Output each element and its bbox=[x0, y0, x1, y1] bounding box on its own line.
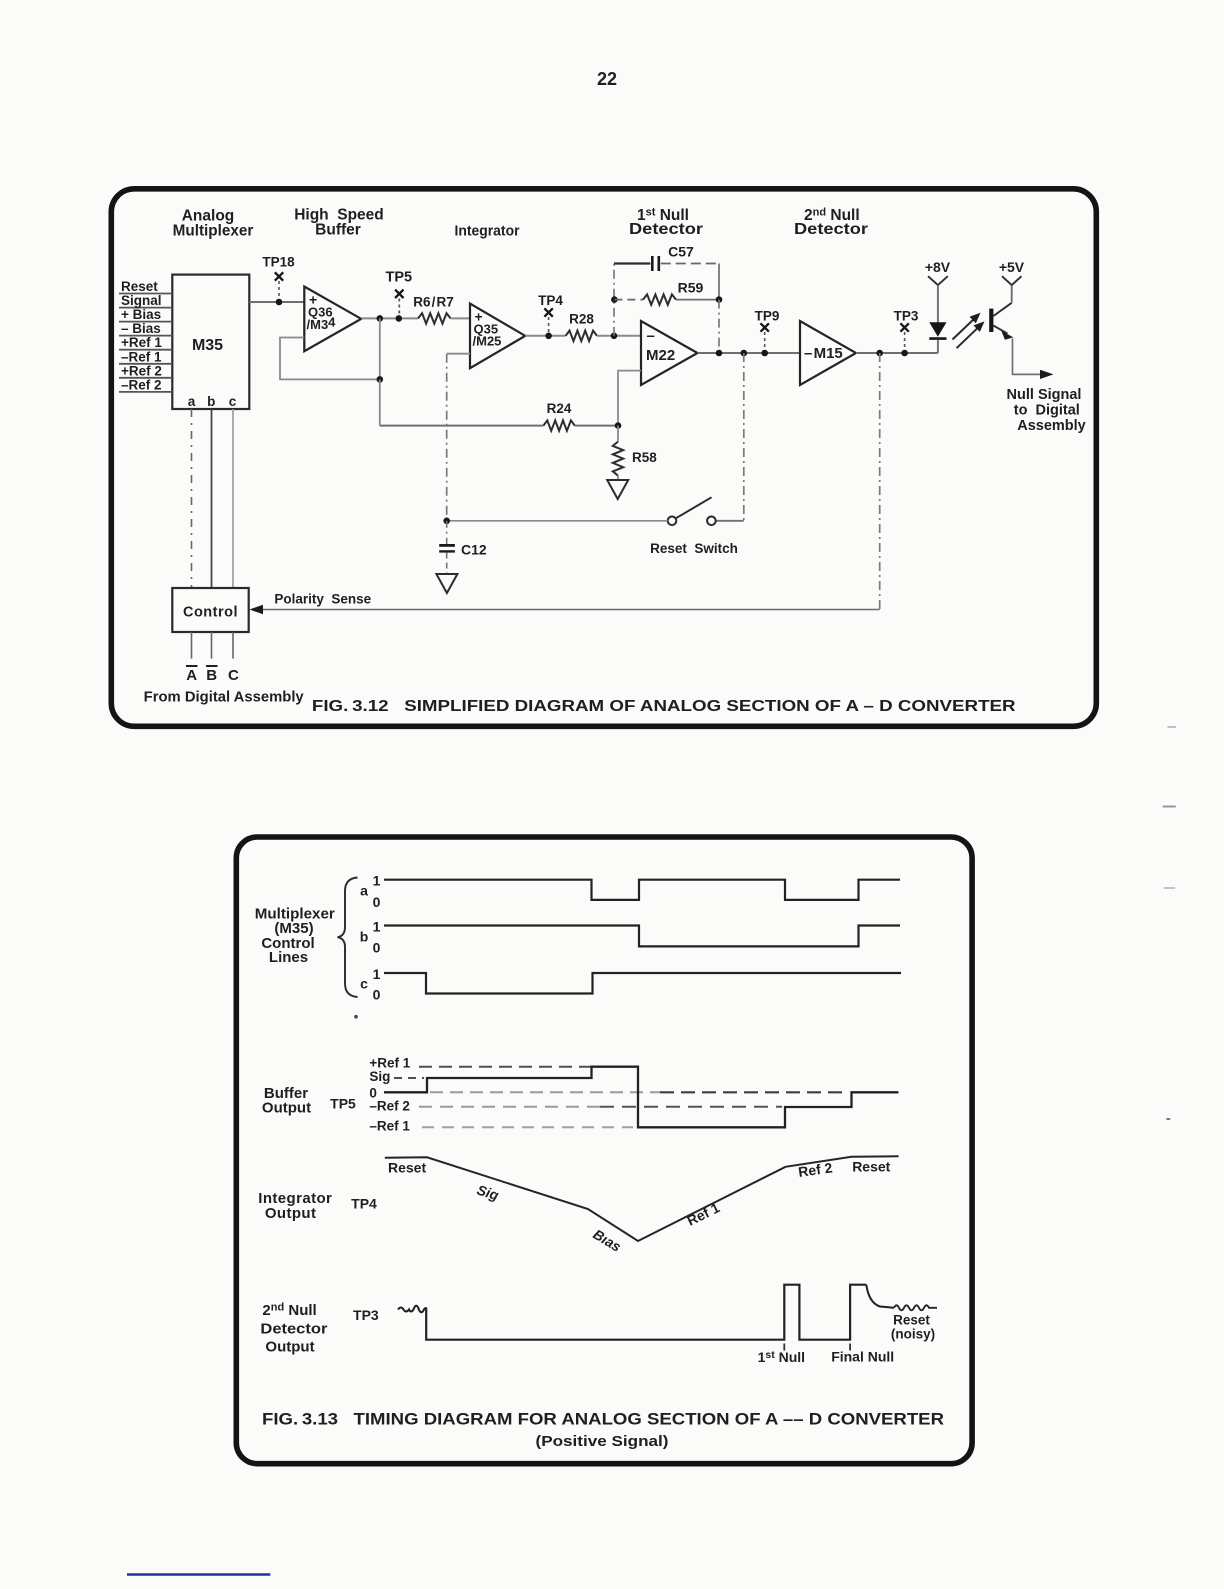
optocoupler transistor bbox=[989, 285, 1013, 340]
svg-text:+ Bias: + Bias bbox=[121, 307, 161, 322]
svg-text:TP5: TP5 bbox=[386, 270, 413, 286]
tick 1st null bbox=[783, 1344, 785, 1351]
level dashes +Ref 1 bbox=[419, 1066, 592, 1068]
svg-text:– M15: – M15 bbox=[804, 345, 843, 362]
capacitor C12 bbox=[439, 521, 487, 574]
power +5V bbox=[999, 259, 1025, 285]
svg-text:From Digital Assembly: From Digital Assembly bbox=[144, 690, 304, 706]
svg-text:FIG. 3.12 SIMPLIFIED DIAGRAM: FIG. 3.12 SIMPLIFIED DIAGRAM OF ANALOG S… bbox=[312, 698, 1016, 715]
svg-text:Ref 1: Ref 1 bbox=[684, 1199, 722, 1228]
resistor R28 bbox=[566, 312, 597, 342]
svg-text:Output: Output bbox=[265, 1339, 314, 1356]
svg-text:Reset: Reset bbox=[852, 1159, 890, 1175]
test point TP5 bbox=[386, 270, 413, 322]
wire control line b bbox=[211, 409, 213, 588]
wire M22 output to M15 bbox=[698, 352, 801, 354]
wire R59 node down to output line bbox=[718, 300, 720, 353]
svg-text:–Ref 2: –Ref 2 bbox=[121, 377, 162, 392]
svg-text:C12: C12 bbox=[461, 542, 487, 558]
svg-text:a: a bbox=[188, 394, 196, 409]
svg-text:Reset: Reset bbox=[893, 1313, 930, 1328]
test point TP3 bbox=[894, 309, 919, 357]
op-amp buffer Q36/M34 bbox=[304, 287, 361, 352]
svg-text:–: – bbox=[647, 328, 655, 345]
level dashes 0 bbox=[430, 1091, 849, 1093]
svg-text:Detector: Detector bbox=[260, 1321, 327, 1338]
svg-text:–Ref 2: –Ref 2 bbox=[369, 1098, 410, 1113]
svg-text:Integrator: Integrator bbox=[455, 223, 520, 240]
svg-text:1: 1 bbox=[373, 966, 381, 982]
scan marks right margin bbox=[1163, 727, 1176, 1119]
svg-text:TP18: TP18 bbox=[262, 255, 295, 270]
svg-text:+5V: +5V bbox=[999, 259, 1025, 275]
wire M35 output to buffer input bbox=[249, 301, 304, 303]
reset switch bbox=[650, 497, 744, 556]
label High Speed Buffer bbox=[294, 206, 384, 238]
svg-text:/M34: /M34 bbox=[307, 315, 337, 333]
test point TP9 bbox=[755, 309, 780, 357]
svg-text:B: B bbox=[206, 667, 217, 684]
svg-text:0: 0 bbox=[373, 940, 381, 956]
svg-text:TP3: TP3 bbox=[353, 1307, 379, 1323]
svg-text:(noisy): (noisy) bbox=[891, 1327, 935, 1342]
node reset switch branch bbox=[741, 350, 748, 357]
M35 input -Bias bbox=[119, 321, 172, 336]
blue rule bottom left bbox=[127, 1573, 270, 1576]
wire buffer output bbox=[361, 317, 418, 319]
label Integrator Output TP4 bbox=[258, 1190, 377, 1222]
svg-text:Reset: Reset bbox=[388, 1160, 426, 1176]
figure 3.12 border frame bbox=[111, 189, 1096, 727]
wire integrator output bbox=[525, 335, 565, 337]
waveform TP4 integrator output curve bbox=[385, 1156, 899, 1241]
svg-text:Control: Control bbox=[183, 605, 238, 621]
test point TP18 bbox=[262, 255, 295, 306]
node buffer output bbox=[377, 315, 384, 322]
svg-text:Detector: Detector bbox=[629, 221, 703, 238]
svg-text:M35: M35 bbox=[192, 337, 223, 354]
svg-text:+8V: +8V bbox=[925, 259, 951, 275]
capacitor C57 bbox=[614, 244, 719, 272]
svg-text:Reset: Reset bbox=[121, 279, 158, 294]
svg-text:R28: R28 bbox=[569, 312, 594, 327]
M35 input -Ref1 bbox=[119, 349, 172, 364]
wire buffer feedback loop bbox=[280, 318, 380, 379]
wire down to R24 row bbox=[379, 379, 381, 425]
svg-text:0: 0 bbox=[373, 987, 381, 1003]
label Multiplexer (M35) Control Lines bbox=[255, 905, 335, 966]
svg-text:(Positive Signal): (Positive Signal) bbox=[536, 1433, 669, 1450]
level dashes -Ref 2 bbox=[419, 1106, 782, 1108]
op-amp 1st null detector M22 bbox=[641, 321, 698, 385]
waveform TP3 trace bbox=[398, 1285, 937, 1340]
wire R6/R7 to integrator bbox=[451, 317, 470, 319]
wire M22 lower input bbox=[618, 371, 641, 426]
svg-text:Lines: Lines bbox=[269, 949, 308, 966]
M35 input +Ref2 bbox=[119, 363, 172, 378]
test point TP4 bbox=[538, 293, 563, 339]
label 2nd Null Detector bbox=[794, 207, 868, 238]
svg-text:b: b bbox=[207, 394, 215, 409]
speck bbox=[354, 1015, 358, 1019]
svg-text:TP3: TP3 bbox=[894, 309, 919, 324]
M35 pins a b c bbox=[188, 394, 237, 409]
waveform b trace bbox=[384, 926, 900, 947]
labels A bar B bar C bbox=[186, 666, 239, 684]
svg-text:R59: R59 bbox=[678, 280, 704, 296]
svg-text:Multiplexer: Multiplexer bbox=[173, 222, 254, 239]
resistor R6/R7 bbox=[413, 295, 454, 324]
label Buffer Output TP5 bbox=[262, 1085, 356, 1117]
light arrows to optocoupler bbox=[953, 313, 985, 349]
waveform a trace bbox=[384, 880, 900, 900]
resistor R58 bbox=[613, 426, 657, 480]
svg-text:TP4: TP4 bbox=[538, 293, 563, 308]
svg-text:a: a bbox=[360, 883, 368, 899]
label 2nd Null Detector Output TP3 bbox=[260, 1302, 379, 1356]
wire control line c bbox=[232, 409, 234, 588]
svg-text:R6 / R7: R6 / R7 bbox=[413, 295, 454, 310]
svg-text:Signal: Signal bbox=[121, 293, 162, 308]
svg-text:– Bias: – Bias bbox=[121, 321, 161, 336]
label Analog Multiplexer bbox=[173, 207, 254, 239]
ground below C12 bbox=[436, 574, 457, 593]
svg-text:Reset Switch: Reset Switch bbox=[650, 541, 738, 556]
svg-text:Polarity Sense: Polarity Sense bbox=[274, 592, 371, 607]
svg-text:M22: M22 bbox=[646, 347, 675, 364]
label Reset (noisy) bbox=[891, 1313, 935, 1342]
wire switch to C12 node bbox=[447, 520, 668, 522]
waveform TP5 buffer output trace bbox=[384, 1067, 899, 1128]
op-amp integrator Q35/M25 bbox=[470, 304, 525, 369]
node C57 feedback at output bbox=[716, 350, 723, 357]
wire M15 output bbox=[856, 352, 938, 354]
svg-text:–Ref 1: –Ref 1 bbox=[121, 349, 162, 364]
wires control box to A B C bbox=[192, 632, 234, 659]
svg-text:Assembly: Assembly bbox=[1017, 418, 1086, 434]
svg-text:c: c bbox=[229, 394, 237, 409]
svg-text:TP9: TP9 bbox=[755, 309, 780, 324]
LED diode bbox=[929, 322, 946, 353]
svg-text:22: 22 bbox=[597, 69, 617, 89]
svg-text:Sig: Sig bbox=[369, 1069, 390, 1084]
M35 input -Ref2 bbox=[119, 377, 172, 392]
node C12 bbox=[443, 518, 450, 525]
level dashes Sig bbox=[394, 1077, 424, 1079]
resistor R24 bbox=[380, 401, 618, 431]
svg-text:0: 0 bbox=[373, 894, 381, 910]
svg-text:TP4: TP4 bbox=[351, 1196, 377, 1212]
node C57/R59 feedback branch bbox=[611, 333, 618, 340]
waveform c trace bbox=[384, 973, 901, 994]
svg-text:1st Null: 1st Null bbox=[758, 1349, 805, 1365]
resistor R59 bbox=[611, 280, 722, 305]
svg-text:+Ref 1: +Ref 1 bbox=[121, 335, 162, 350]
svg-text:FIG. 3.13 TIMING DIAGRAM FOR: FIG. 3.13 TIMING DIAGRAM FOR ANALOG SECT… bbox=[262, 1410, 944, 1429]
node R24 / R58 junction bbox=[615, 422, 622, 429]
svg-text:Detector: Detector bbox=[794, 221, 868, 238]
svg-text:1: 1 bbox=[373, 919, 381, 935]
wire polarity sense bbox=[250, 353, 880, 614]
M35 input +Bias bbox=[119, 307, 172, 322]
M35 input Reset bbox=[119, 279, 172, 294]
control box bbox=[172, 588, 248, 632]
svg-text:Ref 2: Ref 2 bbox=[797, 1159, 833, 1180]
label 1st Null Detector bbox=[629, 207, 703, 238]
ground below R58 bbox=[607, 480, 628, 499]
wire C57 right leg down bbox=[718, 264, 720, 300]
svg-text:2nd Null: 2nd Null bbox=[262, 1302, 316, 1320]
svg-text:–Ref 1: –Ref 1 bbox=[369, 1118, 410, 1133]
svg-text:Null Signal: Null Signal bbox=[1007, 387, 1082, 403]
wire reset switch branch down bbox=[743, 353, 745, 521]
svg-text:R58: R58 bbox=[632, 450, 657, 465]
waveform a labels bbox=[360, 873, 381, 911]
svg-text:Bıas: Bıas bbox=[590, 1226, 624, 1255]
svg-text:to Digital: to Digital bbox=[1014, 403, 1080, 419]
wire R28 to M22 input bbox=[597, 335, 641, 337]
node polarity sense branch bbox=[876, 350, 883, 357]
label Null Signal to Digital Assembly bbox=[1007, 387, 1086, 434]
waveform b labels bbox=[360, 919, 381, 956]
figure 3.13 border frame bbox=[236, 837, 972, 1464]
svg-text:c: c bbox=[360, 976, 368, 992]
svg-text:C57: C57 bbox=[668, 244, 694, 260]
waveform c labels bbox=[360, 966, 381, 1003]
wire integrator inverting input to C12 node bbox=[447, 354, 470, 521]
wire control line a bbox=[191, 409, 193, 588]
M35 input Signal bbox=[119, 293, 172, 308]
node feedback / R24 branch bbox=[377, 376, 384, 383]
svg-text:b: b bbox=[360, 929, 369, 945]
svg-text:Buffer: Buffer bbox=[315, 221, 361, 238]
svg-text:TP5: TP5 bbox=[330, 1096, 356, 1112]
svg-text:Final Null: Final Null bbox=[831, 1349, 894, 1365]
svg-text:+Ref 2: +Ref 2 bbox=[121, 363, 162, 378]
tick final null bbox=[849, 1344, 851, 1351]
svg-text:1: 1 bbox=[373, 873, 381, 889]
brace for control lines bbox=[338, 878, 358, 998]
svg-text:Output: Output bbox=[265, 1205, 317, 1222]
svg-text:/M25: /M25 bbox=[473, 334, 502, 349]
svg-text:Sig: Sig bbox=[475, 1182, 501, 1204]
multiplexer M35 bbox=[172, 275, 249, 409]
svg-text:+Ref 1: +Ref 1 bbox=[369, 1055, 410, 1070]
level dashes -Ref 1 bbox=[422, 1126, 633, 1128]
wire up to C57 bbox=[613, 264, 615, 336]
power +8V bbox=[925, 259, 951, 323]
svg-text:Output: Output bbox=[262, 1100, 311, 1117]
op-amp 2nd null detector M15 bbox=[800, 321, 856, 385]
svg-text:A: A bbox=[186, 667, 197, 684]
M35 input +Ref1 bbox=[119, 335, 172, 350]
svg-text:C: C bbox=[228, 667, 239, 684]
svg-text:R24: R24 bbox=[547, 401, 572, 416]
wire null signal output arrow bbox=[1013, 339, 1054, 380]
